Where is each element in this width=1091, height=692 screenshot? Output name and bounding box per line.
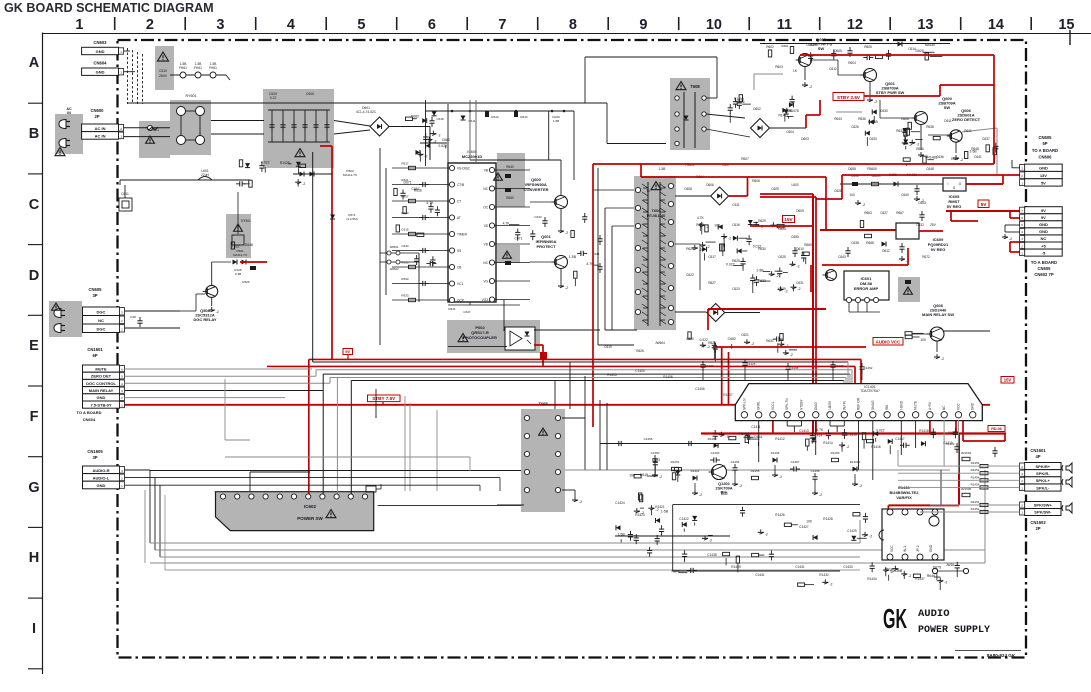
svg-text:I: I: [32, 621, 36, 637]
svg-text:(4.2-5M): (4.2-5M): [346, 217, 357, 221]
svg-text:-2: -2: [960, 158, 963, 162]
svg-text:R1432: R1432: [819, 573, 829, 577]
svg-text:C1438: C1438: [707, 553, 717, 557]
svg-text:0-22: 0-22: [270, 96, 277, 100]
svg-text:250V: 250V: [159, 74, 168, 78]
svg-text:R633: R633: [401, 277, 409, 281]
svg-text:C621: C621: [741, 333, 749, 337]
svg-text:AT: AT: [457, 216, 461, 220]
svg-text:CN605: CN605: [1037, 266, 1051, 271]
svg-text:VS-DISC: VS-DISC: [457, 167, 471, 171]
svg-text:C608: C608: [684, 187, 692, 191]
svg-text:CONVERTER: CONVERTER: [523, 187, 548, 192]
svg-text:R1434: R1434: [867, 577, 877, 581]
svg-text:C606: C606: [306, 92, 314, 96]
svg-text:D658: D658: [848, 167, 856, 171]
svg-text:4.7K: 4.7K: [697, 216, 705, 220]
svg-text:R608: R608: [752, 179, 760, 183]
svg-text:1: 1: [75, 17, 83, 33]
svg-text:-2: -2: [437, 134, 440, 138]
svg-text:1-5B: 1-5B: [553, 119, 559, 123]
svg-text:-2: -2: [944, 581, 947, 585]
svg-text:NC: NC: [483, 187, 488, 191]
svg-text:-2: -2: [916, 143, 919, 147]
svg-text:C667: C667: [412, 187, 420, 191]
svg-text:C653: C653: [918, 201, 926, 205]
svg-text:1-5B: 1-5B: [659, 167, 666, 171]
svg-text:R617: R617: [401, 195, 409, 199]
svg-text:2: 2: [146, 17, 154, 33]
svg-text:R640: R640: [506, 165, 514, 169]
svg-text:R1451: R1451: [971, 500, 980, 504]
svg-text:R1478: R1478: [789, 109, 799, 113]
svg-text:POWER SW: POWER SW: [297, 516, 323, 521]
svg-text:SW: SW: [818, 46, 825, 51]
svg-text:C1454: C1454: [731, 460, 740, 464]
svg-text:R526: R526: [242, 280, 250, 284]
svg-text:C1473: C1473: [705, 364, 714, 368]
svg-text:JW604: JW604: [655, 341, 665, 345]
svg-text:MUTE: MUTE: [95, 366, 107, 371]
svg-text:5V REG: 5V REG: [947, 204, 962, 209]
svg-text:100: 100: [629, 474, 635, 478]
svg-text:C1466: C1466: [644, 437, 653, 441]
svg-text:D612: D612: [882, 249, 890, 253]
svg-text:5V: 5V: [981, 202, 988, 208]
svg-text:R632: R632: [758, 279, 766, 283]
svg-text:ZERO DETECT: ZERO DETECT: [952, 117, 981, 122]
svg-text:IRA: IRA: [885, 404, 889, 410]
svg-text:C1452: C1452: [864, 366, 873, 370]
svg-text:C614: C614: [908, 47, 916, 51]
svg-text:C671: C671: [514, 237, 522, 241]
svg-text:SS: SS: [457, 249, 461, 253]
svg-text:C1429: C1429: [847, 529, 857, 533]
svg-text:IN-1: IN-1: [903, 546, 907, 552]
svg-text:I: I: [948, 182, 949, 186]
svg-text:R602: R602: [766, 45, 774, 49]
svg-text:D603: D603: [801, 137, 809, 141]
svg-text:G: G: [28, 480, 39, 496]
svg-text:-2: -2: [709, 538, 712, 542]
svg-text:R641: R641: [964, 129, 972, 133]
svg-text:GND: GND: [97, 395, 106, 400]
svg-text:25V: 25V: [930, 223, 937, 227]
svg-text:TO A BOARD: TO A BOARD: [77, 410, 102, 415]
svg-text:R626: R626: [636, 349, 644, 353]
svg-text:R1460: R1460: [708, 437, 717, 441]
svg-text:D1406: D1406: [771, 451, 780, 455]
svg-text:MAIN RELAY: MAIN RELAY: [89, 388, 114, 393]
svg-text:R1414: R1414: [823, 441, 833, 445]
svg-text:C609: C609: [771, 187, 779, 191]
svg-text:R638: R638: [926, 125, 934, 129]
svg-text:GND: GND: [971, 402, 975, 410]
svg-text:R601: R601: [781, 44, 789, 48]
svg-text:H: H: [29, 550, 39, 566]
svg-text:R629: R629: [758, 219, 766, 223]
svg-text:C1411: C1411: [751, 425, 760, 429]
svg-text:C632: C632: [916, 223, 924, 227]
svg-text:R1454: R1454: [971, 468, 980, 472]
svg-text:-2: -2: [941, 357, 944, 361]
svg-text:5: 5: [357, 17, 365, 33]
svg-text:C610: C610: [159, 69, 167, 73]
svg-text:R1423: R1423: [635, 513, 645, 517]
svg-text:C611: C611: [732, 203, 740, 207]
svg-text:R646: R646: [927, 574, 935, 578]
svg-text:JP-2: JP-2: [916, 545, 920, 552]
svg-text:RD-08: RD-08: [991, 427, 1001, 431]
svg-text:E: E: [29, 338, 39, 354]
svg-text:D: D: [29, 268, 39, 284]
svg-text:C652: C652: [728, 337, 736, 341]
svg-text:C629: C629: [778, 287, 786, 291]
svg-text:NC: NC: [942, 405, 946, 410]
svg-text:R1412: R1412: [775, 437, 785, 441]
svg-text:R1418: R1418: [919, 429, 929, 433]
svg-text:22uH: 22uH: [201, 173, 210, 177]
svg-text:-2: -2: [424, 154, 427, 158]
svg-text:-2: -2: [579, 500, 582, 504]
svg-text:R667: R667: [896, 211, 904, 215]
svg-text:2SK709A: 2SK709A: [715, 486, 732, 491]
svg-text:C631: C631: [796, 281, 804, 285]
svg-text:C604: C604: [786, 130, 794, 134]
svg-text:VCC: VCC: [956, 403, 960, 410]
svg-text:D629: D629: [916, 49, 924, 53]
svg-text:ERROR AMP: ERROR AMP: [854, 286, 879, 291]
svg-text:D1402: D1402: [691, 469, 700, 473]
svg-text:MA111-TX: MA111-TX: [343, 173, 357, 177]
svg-text:C641: C641: [974, 155, 982, 159]
svg-text:-2: -2: [779, 475, 782, 479]
svg-text:R604: R604: [848, 61, 856, 65]
svg-text:AUDIO-L: AUDIO-L: [93, 475, 110, 480]
svg-text:CB: CB: [457, 266, 461, 270]
svg-text:4.7K: 4.7K: [426, 201, 434, 205]
svg-text:SPK-7N: SPK-7N: [785, 398, 789, 410]
svg-text:C1423: C1423: [835, 364, 844, 368]
svg-text:3P: 3P: [92, 455, 97, 460]
svg-text:C627: C627: [880, 211, 888, 215]
svg-text:C603: C603: [806, 43, 814, 47]
svg-text:15V: 15V: [784, 217, 793, 222]
svg-text:GND: GND: [96, 70, 105, 75]
svg-text:15V: 15V: [1004, 378, 1012, 383]
svg-text:D606: D606: [706, 183, 714, 187]
svg-text:100: 100: [920, 338, 926, 342]
svg-text:-2: -2: [874, 100, 877, 104]
svg-text:STBY PWR SW: STBY PWR SW: [876, 90, 905, 95]
svg-text:C1413: C1413: [799, 429, 809, 433]
svg-text:GK: GK: [883, 603, 907, 634]
svg-text:INJ IN: INJ IN: [842, 400, 846, 410]
svg-text:7.5-STB-9Y: 7.5-STB-9Y: [90, 402, 111, 407]
svg-text:CN602 7P: CN602 7P: [1034, 272, 1054, 277]
svg-text:JW602: JW602: [389, 267, 399, 271]
svg-text:DGC RELAY: DGC RELAY: [193, 317, 217, 322]
svg-text:PROTECT: PROTECT: [536, 244, 556, 249]
svg-text:1-5B: 1-5B: [661, 509, 669, 513]
svg-text:-2: -2: [862, 203, 865, 207]
svg-text:C48: C48: [130, 315, 136, 319]
svg-text:6: 6: [428, 17, 436, 33]
svg-text:FH61: FH61: [179, 66, 187, 70]
svg-text:音出: 音出: [720, 490, 728, 495]
svg-text:C624: C624: [778, 227, 786, 231]
svg-text:CN606: CN606: [1038, 155, 1052, 160]
svg-text:SW: SW: [944, 105, 951, 110]
svg-text:C1441: C1441: [755, 573, 765, 577]
svg-text:R1455: R1455: [751, 469, 760, 473]
svg-text:CN605: CN605: [1038, 135, 1052, 140]
svg-text:-2: -2: [909, 143, 912, 147]
svg-text:-2: -2: [1009, 237, 1012, 241]
svg-text:CN1601: CN1601: [87, 347, 103, 352]
svg-text:C616: C616: [732, 223, 740, 227]
svg-text:15: 15: [1058, 17, 1074, 33]
svg-text:100: 100: [849, 193, 855, 197]
svg-text:R617: R617: [401, 162, 409, 166]
svg-text:C648: C648: [926, 167, 934, 171]
svg-text:VCC: VCC: [890, 545, 894, 552]
svg-text:CN603: CN603: [93, 40, 107, 45]
svg-text:14: 14: [988, 17, 1004, 33]
svg-text:I-B/5V: I-B/5V: [828, 400, 832, 410]
svg-text:C1458: C1458: [811, 469, 820, 473]
svg-text:R1483: R1483: [927, 155, 937, 159]
svg-text:D661: D661: [754, 435, 762, 439]
svg-text:JW16: JW16: [946, 563, 954, 567]
svg-text:R605: R605: [864, 45, 872, 49]
svg-text:4: 4: [287, 17, 295, 33]
svg-text:9V REG: 9V REG: [931, 247, 946, 252]
svg-text:RY601: RY601: [186, 94, 197, 98]
svg-text:-2: -2: [869, 535, 872, 539]
svg-text:DIAG: DIAG: [814, 402, 818, 410]
svg-text:3: 3: [216, 17, 224, 33]
svg-text:R607: R607: [741, 157, 749, 161]
svg-text:-2: -2: [819, 493, 822, 497]
svg-text:R1459: R1459: [831, 451, 840, 455]
svg-text:TIMER: TIMER: [457, 233, 468, 237]
svg-text:POWER SUPPLY: POWER SUPPLY: [918, 625, 990, 636]
svg-text:4P: 4P: [1035, 454, 1040, 459]
svg-text:-2: -2: [751, 342, 754, 346]
svg-text:1-5B: 1-5B: [569, 255, 577, 259]
svg-text:-2: -2: [707, 345, 710, 349]
svg-text:9: 9: [639, 17, 647, 33]
svg-text:C1405: C1405: [635, 369, 645, 373]
svg-text:D682: D682: [411, 114, 419, 118]
svg-text:MA150: MA150: [925, 43, 935, 47]
svg-text:CN1605: CN1605: [87, 449, 103, 454]
svg-text:C1433: C1433: [843, 565, 853, 569]
svg-text:R642: R642: [951, 157, 959, 161]
svg-text:C1450: C1450: [651, 451, 660, 455]
svg-text:5P: 5P: [1042, 141, 1047, 146]
svg-text:1-5B: 1-5B: [969, 149, 977, 153]
svg-text:R627: R627: [708, 281, 716, 285]
svg-text:SPK-LN: SPK-LN: [742, 398, 746, 410]
svg-text:JR1504: JR1504: [961, 451, 972, 455]
svg-text:0.022: 0.022: [699, 338, 708, 342]
svg-text:GND: GND: [1039, 166, 1048, 171]
svg-text:IC600: IC600: [467, 150, 477, 154]
svg-text:VD: VD: [484, 243, 489, 247]
svg-text:IC602: IC602: [304, 504, 317, 509]
svg-text:GND: GND: [97, 483, 106, 488]
svg-text:2P: 2P: [1035, 526, 1040, 531]
svg-text:C622: C622: [686, 273, 694, 277]
svg-text:3P: 3P: [92, 293, 97, 298]
svg-text:CN604: CN604: [93, 61, 107, 66]
svg-text:AC IN: AC IN: [95, 133, 106, 138]
svg-text:C615: C615: [401, 228, 409, 232]
svg-text:NC: NC: [98, 318, 104, 323]
svg-text:-2: -2: [433, 140, 436, 144]
svg-text:CN605: CN605: [88, 287, 102, 292]
svg-text:-2: -2: [809, 85, 812, 89]
svg-text:12: 12: [847, 17, 863, 33]
svg-text:R1407: R1407: [723, 393, 733, 397]
svg-text:R633: R633: [401, 294, 409, 298]
svg-text:1-5B: 1-5B: [195, 62, 202, 66]
svg-text:T608: T608: [690, 84, 700, 89]
svg-text:R1428: R1428: [823, 517, 833, 521]
svg-text:PHOTOCOUPLER: PHOTOCOUPLER: [463, 335, 497, 340]
svg-text:1-5B: 1-5B: [180, 62, 187, 66]
svg-text:R622: R622: [696, 223, 704, 227]
svg-text:MUTE: MUTE: [914, 401, 918, 410]
svg-text:R646: R646: [916, 147, 924, 151]
svg-text:R641: R641: [448, 307, 456, 311]
svg-text:10: 10: [706, 17, 722, 33]
svg-text:C638: C638: [851, 241, 859, 245]
svg-text:-2: -2: [797, 287, 800, 291]
svg-text:R1451: R1451: [671, 460, 680, 464]
svg-text:CT: CT: [457, 200, 461, 204]
svg-text:9V: 9V: [1041, 215, 1046, 220]
svg-text:R1426: R1426: [775, 513, 785, 517]
svg-text:C1406: C1406: [695, 387, 705, 391]
svg-text:R1416: R1416: [871, 445, 881, 449]
svg-text:SPK/L+: SPK/L+: [1036, 478, 1051, 483]
svg-text:C640: C640: [901, 193, 909, 197]
svg-text:FH61: FH61: [194, 66, 202, 70]
svg-text:SPK/R+: SPK/R+: [1036, 464, 1051, 469]
svg-text:-2: -2: [302, 182, 305, 186]
svg-text:DGC: DGC: [97, 310, 106, 315]
svg-text:MA111-TX: MA111-TX: [233, 253, 247, 257]
svg-text:NC: NC: [483, 261, 488, 265]
svg-text:C1415: C1415: [847, 433, 857, 437]
svg-text:100: 100: [806, 519, 812, 523]
svg-text:C1422: C1422: [679, 517, 689, 521]
svg-text:C626: C626: [851, 125, 859, 129]
svg-text:CT/B: CT/B: [457, 183, 464, 187]
svg-text:9V: 9V: [345, 349, 350, 354]
svg-text:-2: -2: [846, 445, 849, 449]
svg-text:R643: R643: [834, 117, 842, 121]
svg-text:0.022: 0.022: [876, 428, 885, 432]
svg-text:0.022: 0.022: [261, 160, 270, 164]
svg-text:0.022: 0.022: [231, 245, 240, 249]
svg-text:GND: GND: [929, 544, 933, 552]
svg-text:4.7K: 4.7K: [816, 428, 824, 432]
svg-text:6P: 6P: [92, 353, 97, 358]
svg-text:R1421: R1421: [655, 505, 665, 509]
svg-text:C1436b: C1436b: [890, 569, 901, 573]
svg-text:4C1-4-74-52C: 4C1-4-74-52C: [356, 110, 377, 114]
svg-text:R631: R631: [766, 339, 774, 343]
svg-text:C1417: C1417: [895, 437, 905, 441]
svg-text:SPK/R-: SPK/R-: [1036, 471, 1050, 476]
svg-text:C1468: C1468: [790, 366, 799, 370]
svg-text:-2: -2: [776, 274, 779, 278]
svg-text:IN: IN: [67, 111, 71, 115]
svg-text:D605: D605: [834, 49, 842, 53]
svg-text:-2: -2: [790, 353, 793, 357]
svg-text:R1437: R1437: [915, 577, 925, 581]
svg-text:D609: D609: [796, 209, 804, 213]
svg-text:R637: R637: [896, 129, 904, 133]
svg-text:VAR/FIX: VAR/FIX: [896, 495, 912, 500]
svg-text:SPK/SW-: SPK/SW-: [1034, 510, 1052, 515]
svg-text:R633: R633: [401, 261, 409, 265]
svg-text:R1454: R1454: [971, 475, 980, 479]
svg-text:T1: T1: [646, 189, 650, 193]
svg-text:STDBY: STDBY: [799, 398, 803, 410]
svg-text:D610: D610: [796, 247, 804, 251]
svg-text:C: C: [29, 197, 40, 213]
svg-text:DGC CONTROL: DGC CONTROL: [86, 381, 116, 386]
svg-text:STBY 2.5V: STBY 2.5V: [837, 95, 861, 100]
svg-text:I-GND: I-GND: [899, 400, 903, 410]
svg-text:-2: -2: [726, 435, 729, 439]
svg-text:OCP: OCP: [457, 299, 464, 303]
svg-text:7: 7: [498, 17, 506, 33]
svg-text:R1451: R1451: [971, 507, 980, 511]
svg-text:C612: C612: [829, 67, 837, 71]
svg-text:13: 13: [917, 17, 933, 33]
svg-text:C619: C619: [604, 345, 612, 349]
svg-text:C625: C625: [778, 255, 786, 259]
svg-text:11: 11: [777, 17, 792, 33]
svg-text:T606: T606: [652, 209, 661, 213]
svg-text:VCCL: VCCL: [771, 401, 775, 410]
svg-text:D611: D611: [944, 119, 952, 123]
svg-text:-2: -2: [565, 286, 568, 290]
svg-text:TO A BOARD: TO A BOARD: [1031, 260, 1057, 265]
svg-text:D671: D671: [404, 181, 412, 185]
svg-text:CN600: CN600: [90, 108, 104, 113]
svg-text:RY501: RY501: [241, 219, 251, 223]
svg-text:OC: OC: [483, 206, 488, 210]
svg-text:-2: -2: [659, 475, 662, 479]
svg-text:R672: R672: [922, 255, 930, 259]
svg-text:5V: 5V: [1041, 180, 1046, 185]
svg-text:GND: GND: [1039, 222, 1048, 227]
svg-text:R613: R613: [491, 115, 499, 119]
svg-text:SMUG: SMUG: [871, 400, 875, 410]
svg-text:R1454: R1454: [971, 482, 980, 486]
svg-text:DGC: DGC: [97, 327, 106, 332]
svg-text:AUDIO-R: AUDIO-R: [92, 468, 109, 473]
svg-text:1-5B: 1-5B: [210, 62, 217, 66]
svg-text:C647: C647: [463, 310, 471, 314]
